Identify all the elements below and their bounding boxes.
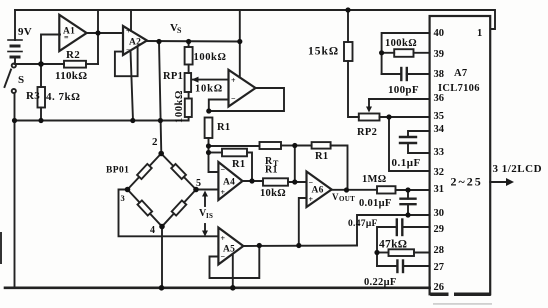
svg-text:R3: R3 bbox=[26, 90, 40, 102]
svg-text:−: − bbox=[126, 46, 131, 55]
svg-text:BP01: BP01 bbox=[106, 166, 129, 176]
svg-text:1MΩ: 1MΩ bbox=[362, 174, 386, 185]
svg-text:3: 3 bbox=[121, 193, 126, 203]
svg-text:10kΩ: 10kΩ bbox=[195, 84, 223, 95]
svg-text:30: 30 bbox=[434, 208, 445, 219]
svg-text:100pF: 100pF bbox=[388, 84, 419, 96]
svg-text:39: 39 bbox=[434, 49, 445, 60]
svg-text:2~25: 2~25 bbox=[451, 175, 483, 189]
svg-text:A2: A2 bbox=[129, 38, 141, 48]
svg-text:29: 29 bbox=[434, 224, 445, 235]
svg-text:−: − bbox=[221, 165, 226, 174]
svg-text:100kΩ: 100kΩ bbox=[174, 90, 185, 123]
svg-text:31: 31 bbox=[434, 184, 445, 195]
svg-text:S: S bbox=[18, 74, 24, 86]
svg-text:34: 34 bbox=[434, 124, 445, 135]
svg-text:A4: A4 bbox=[223, 178, 235, 188]
svg-text:−: − bbox=[221, 252, 226, 261]
svg-text:+: + bbox=[221, 234, 226, 243]
svg-text:32: 32 bbox=[434, 167, 445, 178]
svg-text:5: 5 bbox=[196, 178, 201, 189]
svg-text:4: 4 bbox=[150, 225, 155, 236]
svg-text:IS: IS bbox=[206, 212, 213, 220]
svg-text:40: 40 bbox=[434, 28, 445, 39]
svg-text:26: 26 bbox=[434, 282, 445, 293]
svg-text:0.1μF: 0.1μF bbox=[392, 157, 421, 169]
svg-text:R1: R1 bbox=[315, 151, 328, 162]
svg-text:33: 33 bbox=[434, 147, 445, 158]
svg-text:0.01μF: 0.01μF bbox=[359, 198, 392, 209]
svg-text:38: 38 bbox=[434, 69, 445, 80]
svg-text:35: 35 bbox=[434, 111, 445, 122]
svg-text:+: + bbox=[231, 76, 236, 85]
svg-text:RP2: RP2 bbox=[357, 127, 377, 138]
svg-text:3 1/2LCD: 3 1/2LCD bbox=[493, 163, 543, 175]
svg-text:OUT: OUT bbox=[339, 195, 355, 203]
svg-text:=: = bbox=[64, 33, 69, 42]
svg-text:4. 7kΩ: 4. 7kΩ bbox=[46, 91, 80, 103]
svg-text:27: 27 bbox=[434, 262, 445, 273]
svg-text:36: 36 bbox=[434, 93, 445, 104]
svg-text:R1: R1 bbox=[232, 159, 245, 170]
svg-text:A6: A6 bbox=[312, 186, 324, 196]
svg-text:R1: R1 bbox=[217, 122, 230, 133]
svg-text:47kΩ: 47kΩ bbox=[379, 239, 407, 251]
svg-text:110kΩ: 110kΩ bbox=[55, 70, 87, 82]
svg-text:R2: R2 bbox=[66, 49, 80, 61]
svg-text:A7: A7 bbox=[454, 68, 467, 79]
svg-text:9V: 9V bbox=[18, 26, 32, 38]
svg-text:−: − bbox=[231, 94, 236, 103]
svg-text:28: 28 bbox=[434, 245, 445, 256]
svg-text:100kΩ: 100kΩ bbox=[194, 52, 227, 63]
svg-text:15kΩ: 15kΩ bbox=[308, 46, 339, 58]
svg-text:10kΩ: 10kΩ bbox=[260, 188, 286, 199]
svg-text:R1: R1 bbox=[265, 165, 278, 176]
svg-text:+: + bbox=[221, 188, 226, 197]
svg-text:ICL7106: ICL7106 bbox=[438, 83, 480, 94]
svg-text:+: + bbox=[309, 195, 314, 204]
svg-text:V: V bbox=[332, 192, 339, 202]
svg-text:−: − bbox=[309, 178, 314, 187]
svg-text:2: 2 bbox=[152, 136, 158, 148]
svg-text:RP1: RP1 bbox=[163, 71, 183, 82]
svg-text:+: + bbox=[126, 27, 131, 36]
svg-text:100kΩ: 100kΩ bbox=[385, 38, 417, 49]
svg-text:0.22μF: 0.22μF bbox=[364, 277, 397, 288]
svg-text:1: 1 bbox=[477, 28, 483, 39]
svg-text:0.47μF: 0.47μF bbox=[348, 219, 378, 229]
svg-text:S: S bbox=[177, 26, 182, 35]
